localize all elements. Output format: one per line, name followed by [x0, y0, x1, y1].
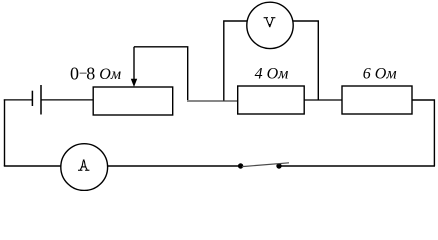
voltmeter letter V (courier-style glyph) — [264, 18, 276, 28]
svg-text:6 Ом: 6 Ом — [363, 65, 397, 82]
ammeter body — [61, 144, 108, 191]
wire: voltmeter left lead — [224, 21, 248, 101]
rheostat wiper arrow — [131, 47, 137, 87]
wire: voltmeter right lead — [293, 21, 319, 100]
battery cell: long plate (positive) — [40, 85, 42, 115]
resistor 4 Om body — [238, 86, 305, 114]
wire: top-left to battery negative plate — [4, 99, 32, 101]
wire: bottom-left corner to ammeter — [4, 165, 61, 167]
ammeter letter A (courier-style glyph) — [78, 160, 89, 171]
voltmeter body — [247, 2, 293, 48]
rheostat body (variable resistor 0-8 Ohm) — [93, 87, 173, 115]
wire: left vertical side — [4, 99, 6, 166]
svg-text:8: 8 — [86, 63, 95, 83]
wire: switch to bottom-right corner — [279, 165, 435, 167]
wire: wiper loop (up, right, down to node) — [134, 47, 188, 101]
wire: battery to rheostat left terminal — [41, 99, 93, 101]
wire: 6 Om to right side and down — [412, 100, 434, 166]
wire: wiper node to 4 Om resistor (gray) — [187, 100, 238, 102]
resistor 6 Om body — [342, 86, 412, 114]
svg-text:0: 0 — [70, 63, 79, 83]
svg-text:4 Ом: 4 Ом — [255, 65, 289, 82]
battery cell: short plate (negative) — [31, 91, 33, 106]
switch contact dot right — [276, 163, 281, 168]
wire: 4 Om to 6 Om — [304, 99, 342, 101]
switch contact dot left — [238, 163, 243, 168]
wire: ammeter to switch — [108, 165, 239, 167]
svg-text:Ом: Ом — [99, 66, 121, 83]
switch blade (open) — [242, 163, 289, 167]
